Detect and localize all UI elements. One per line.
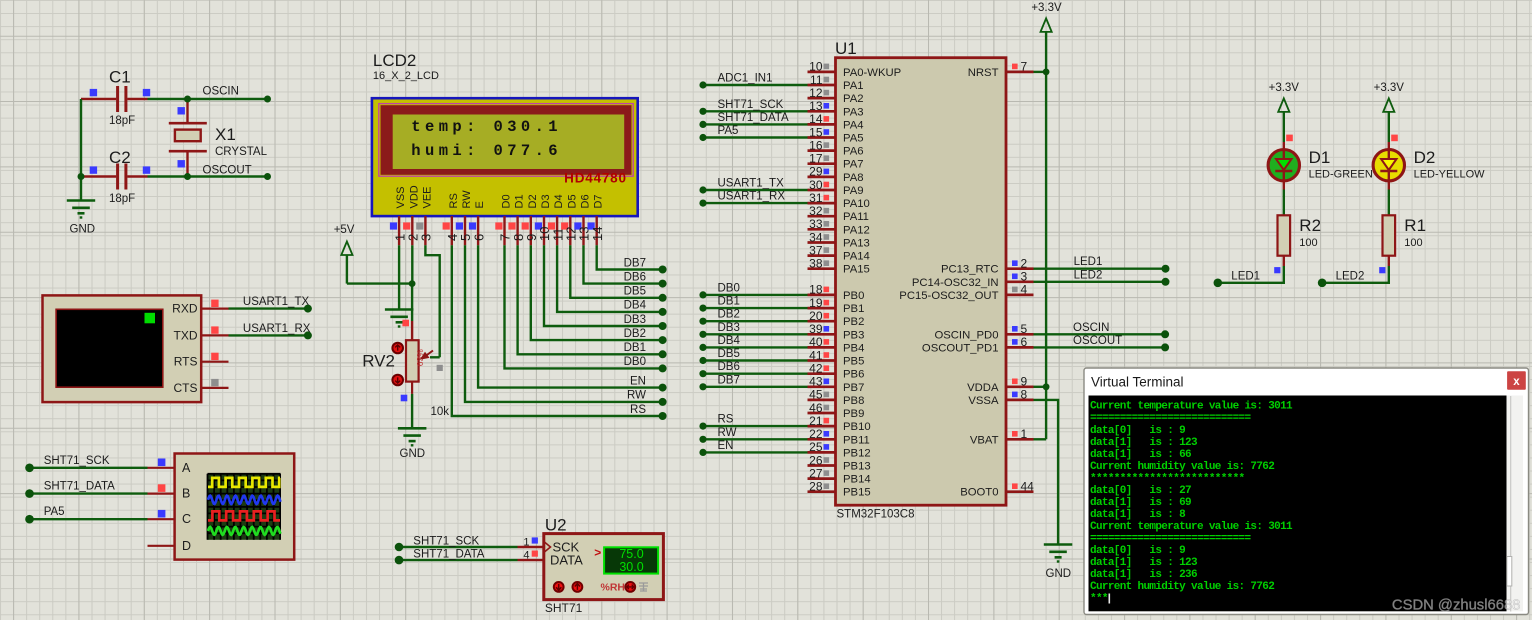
svg-text:D6: D6 xyxy=(580,194,592,208)
svg-text:OSCIN_PD0: OSCIN_PD0 xyxy=(934,329,998,341)
svg-text:data[0] is : 9: data[0] is : 9 xyxy=(1090,425,1185,437)
svg-text:DB7: DB7 xyxy=(624,257,646,269)
svg-text:RTS: RTS xyxy=(174,355,198,369)
wire EN (LCD side) xyxy=(478,245,666,391)
svg-text:RS: RS xyxy=(630,404,646,416)
svg-text:PC14-OSC32_IN: PC14-OSC32_IN xyxy=(912,277,999,289)
svg-text:LED1: LED1 xyxy=(1231,271,1260,283)
U1 pin 12 (PA2) xyxy=(808,86,864,105)
svg-text:PB12: PB12 xyxy=(843,447,871,459)
svg-text:RXD: RXD xyxy=(172,302,198,316)
svg-text:41: 41 xyxy=(809,348,823,362)
U1 pin 38 (PA15) xyxy=(808,257,870,276)
U1 pin 32 (PA11) xyxy=(808,204,869,223)
U1 pin 25 (PB12) xyxy=(808,440,871,459)
wire LCD VSS to ground xyxy=(398,245,400,308)
ground (LCD VSS) xyxy=(385,310,414,327)
svg-text:PB15: PB15 xyxy=(843,487,871,499)
svg-text:30.0: 30.0 xyxy=(619,560,643,574)
wire D1 cathode to R2 xyxy=(1283,190,1285,216)
svg-text:PB3: PB3 xyxy=(843,329,864,341)
U1 pin 2 (PC13_RTC) xyxy=(941,257,1034,276)
crystal X1 xyxy=(169,99,268,177)
U1 pin 33 (PA12) xyxy=(808,217,870,236)
svg-text:14: 14 xyxy=(809,112,823,126)
svg-text:PB13: PB13 xyxy=(843,461,871,473)
svg-text:16: 16 xyxy=(809,138,823,152)
wire SHT71_DATA (scope B) xyxy=(25,481,147,498)
svg-text:32: 32 xyxy=(809,204,823,218)
U1 pin 14 (PA4) xyxy=(808,112,864,131)
LCD2 pin 9 (D2) xyxy=(522,194,539,245)
svg-text:40: 40 xyxy=(809,335,823,349)
svg-text:SHT71_DATA: SHT71_DATA xyxy=(413,548,484,560)
svg-text:PA12: PA12 xyxy=(843,224,870,236)
svg-text:34: 34 xyxy=(809,230,823,244)
svg-text:data[0] is : 27: data[0] is : 27 xyxy=(1090,485,1191,497)
wire USART1_TX (terminal RXD) xyxy=(229,296,312,313)
ground (crystal section) xyxy=(67,201,95,236)
svg-text:7: 7 xyxy=(1021,60,1028,74)
svg-text:USART1_RX: USART1_RX xyxy=(718,191,786,203)
wire RW (U1 side) xyxy=(699,427,807,443)
svg-text:PA6: PA6 xyxy=(843,146,864,158)
wire DB5 (U1 side) xyxy=(699,348,807,364)
svg-text:DB3: DB3 xyxy=(624,314,646,326)
svg-text:DB7: DB7 xyxy=(718,374,740,386)
svg-text:SHT71: SHT71 xyxy=(545,601,583,615)
svg-text:PB4: PB4 xyxy=(843,342,864,354)
svg-text:PB0: PB0 xyxy=(843,290,864,302)
svg-text:29: 29 xyxy=(809,165,823,179)
U1 pin 42 (PB6) xyxy=(808,362,865,381)
svg-text:RW: RW xyxy=(718,427,737,439)
wire DB2 (U1 side) xyxy=(699,309,807,325)
svg-text:VDD: VDD xyxy=(408,185,420,208)
svg-text:D2: D2 xyxy=(1414,148,1436,167)
U1 pin 31 (PA10) xyxy=(808,191,870,210)
wire PA5 (U1 side) xyxy=(699,125,807,141)
U1 pin 11 (PA1) xyxy=(808,73,864,92)
svg-text:USART1_TX: USART1_TX xyxy=(243,296,310,308)
svg-text:U1: U1 xyxy=(835,39,857,58)
capacitor C2 xyxy=(81,148,150,205)
LCD2 pin 6 (E) xyxy=(469,201,486,245)
U1 pin 43 (PB7) xyxy=(808,375,865,394)
LED D1 LED-GREEN xyxy=(1268,135,1373,181)
svg-text:18: 18 xyxy=(809,283,823,297)
svg-text:RV2: RV2 xyxy=(362,351,395,370)
svg-text:D2: D2 xyxy=(527,194,539,208)
svg-text:4: 4 xyxy=(1021,283,1028,297)
wire USART1_RX (terminal TXD) xyxy=(229,323,312,340)
svg-text:PA5: PA5 xyxy=(718,125,739,137)
svg-text:LED-GREEN: LED-GREEN xyxy=(1309,169,1373,181)
svg-text:18pF: 18pF xyxy=(109,115,135,127)
svg-text:21: 21 xyxy=(809,414,823,428)
svg-text:PB10: PB10 xyxy=(843,421,871,433)
oscilloscope pin B xyxy=(148,484,175,493)
svg-text:D3: D3 xyxy=(540,194,552,208)
svg-text:RW: RW xyxy=(461,190,473,209)
svg-text:VSS: VSS xyxy=(395,186,407,208)
wire OSCIN net (OSCIN_PD0) xyxy=(1034,322,1170,339)
Virtual Terminal close button xyxy=(1507,371,1526,390)
svg-text:CTS: CTS xyxy=(174,381,198,395)
LCD2 pin 5 (RW) xyxy=(456,190,473,246)
svg-text:%RH: %RH xyxy=(601,581,626,593)
svg-text:DB0: DB0 xyxy=(718,282,740,294)
wire DB3 (LCD side) xyxy=(544,245,667,330)
svg-text:28: 28 xyxy=(809,480,823,494)
svg-text:18pF: 18pF xyxy=(109,193,135,205)
virtual terminal pin RTS xyxy=(201,353,228,362)
svg-text:PC15-OSC32_OUT: PC15-OSC32_OUT xyxy=(899,290,998,302)
ground (RV2) xyxy=(398,428,427,460)
svg-text:38: 38 xyxy=(809,257,823,271)
ground (U1 VSSA) xyxy=(1044,545,1073,581)
svg-text:6: 6 xyxy=(471,234,486,241)
power +3.3V (U1 rail) xyxy=(1031,2,1062,32)
U1 pin 29 (PA8) xyxy=(808,165,864,184)
svg-text:A: A xyxy=(182,461,191,475)
power +5V xyxy=(334,224,355,284)
U1 pin 16 (PA6) xyxy=(808,138,864,157)
wire D2 cathode to R1 xyxy=(1388,190,1390,216)
svg-text:GND: GND xyxy=(400,448,426,460)
svg-text:D5: D5 xyxy=(566,194,578,208)
svg-text:DB4: DB4 xyxy=(624,300,647,312)
LCD2 pin 4 (RS) xyxy=(443,193,460,245)
svg-text:SHT71_SCK: SHT71_SCK xyxy=(413,535,479,547)
svg-text:Current temperature value is:: Current temperature value is: 3011 xyxy=(1090,521,1293,533)
svg-text:**************************: ************************** xyxy=(1090,473,1245,485)
U1 pin 15 (PA5) xyxy=(808,125,864,144)
svg-text:PB7: PB7 xyxy=(843,382,864,394)
svg-text:Virtual Terminal: Virtual Terminal xyxy=(1091,375,1184,390)
U1 pin 7 (NRST) xyxy=(968,60,1034,79)
power +3.3V (D1) xyxy=(1269,82,1300,135)
U2 pin 1 (SCK) xyxy=(518,536,544,548)
wire OSCIN net (C1 to crystal top) xyxy=(148,86,272,103)
svg-text:PB8: PB8 xyxy=(843,395,864,407)
U1 pin 44 (BOOT0) xyxy=(960,480,1034,499)
svg-text:LED1: LED1 xyxy=(1074,256,1103,268)
wire DB4 (U1 side) xyxy=(699,335,807,351)
virtual terminal pin RXD xyxy=(201,300,228,309)
svg-text:PA5: PA5 xyxy=(843,133,864,145)
svg-text:PA5: PA5 xyxy=(44,506,65,518)
LCD2 pin 10 (D3) xyxy=(535,194,552,245)
svg-text:Current humidity value is: 776: Current humidity value is: 7762 xyxy=(1090,461,1274,473)
U1 pin 40 (PB4) xyxy=(808,335,865,354)
svg-text:46: 46 xyxy=(809,401,823,415)
svg-text:DB4: DB4 xyxy=(718,335,741,347)
svg-text:GND: GND xyxy=(1046,568,1072,580)
LCD2 pin 3 (VEE) xyxy=(416,186,433,245)
resistor R2 100 xyxy=(1278,215,1322,266)
svg-text:PB2: PB2 xyxy=(843,316,864,328)
svg-text:PA2: PA2 xyxy=(843,93,864,105)
svg-text:B: B xyxy=(182,487,190,501)
U1 pin 8 (VSSA) xyxy=(968,388,1033,407)
svg-text:30: 30 xyxy=(809,178,823,192)
svg-text:Current temperature value is:: Current temperature value is: 3011 xyxy=(1090,401,1293,413)
svg-text:HD44780: HD44780 xyxy=(564,171,627,186)
wire USART1_TX (U1 side) xyxy=(699,178,807,194)
svg-text:44: 44 xyxy=(1021,480,1035,494)
svg-text:DATA: DATA xyxy=(550,553,583,568)
U1 pin 41 (PB5) xyxy=(808,348,865,367)
svg-text:OSCOUT_PD1: OSCOUT_PD1 xyxy=(922,342,999,354)
oscilloscope trace channel A (yellow) xyxy=(208,478,280,487)
svg-text:10: 10 xyxy=(809,60,823,74)
svg-text:data[1] is : 236: data[1] is : 236 xyxy=(1090,569,1197,581)
wire SHT71_SCK (scope A) xyxy=(25,455,147,472)
potentiometer RV2 10k xyxy=(362,320,449,418)
svg-text:10k: 10k xyxy=(431,406,450,418)
U1 pin 45 (PB8) xyxy=(808,388,865,407)
svg-text:data[1] is : 69: data[1] is : 69 xyxy=(1090,497,1191,509)
svg-text:3: 3 xyxy=(1021,270,1028,284)
wire LED2 net to R1 bottom xyxy=(1318,266,1389,287)
svg-text:PA15: PA15 xyxy=(843,264,870,276)
svg-text:D1: D1 xyxy=(514,194,526,208)
svg-text:ADC1_IN1: ADC1_IN1 xyxy=(718,73,773,85)
svg-text:===========================: =========================== xyxy=(1090,413,1251,425)
svg-text:PA11: PA11 xyxy=(843,211,869,223)
svg-text:15: 15 xyxy=(809,125,823,139)
U1 pin 17 (PA7) xyxy=(808,152,864,171)
svg-text:PA8: PA8 xyxy=(843,172,864,184)
svg-text:PB1: PB1 xyxy=(843,303,864,315)
svg-text:LCD2: LCD2 xyxy=(373,51,416,70)
oscilloscope trace channel B (blue) xyxy=(208,496,281,504)
U1 pin 27 (PB14) xyxy=(808,466,871,485)
svg-text:6: 6 xyxy=(1021,335,1028,349)
svg-text:OSCOUT: OSCOUT xyxy=(1073,335,1122,347)
svg-text:OSCIN: OSCIN xyxy=(203,86,239,98)
U1 pin 46 (PB9) xyxy=(808,401,865,420)
svg-text:PA7: PA7 xyxy=(843,159,864,171)
LED D2 LED-YELLOW xyxy=(1373,135,1485,181)
Virtual Terminal window xyxy=(1084,368,1529,615)
oscilloscope trace channel C (red) xyxy=(208,511,280,520)
svg-text:1: 1 xyxy=(523,536,529,548)
svg-text:43: 43 xyxy=(809,375,823,389)
svg-text:>: > xyxy=(594,546,601,560)
svg-text:SHT71_DATA: SHT71_DATA xyxy=(718,112,789,124)
wire SHT71_DATA (U2 side) xyxy=(395,548,518,564)
svg-text:PB9: PB9 xyxy=(843,408,864,420)
svg-text:data[1] is : 123: data[1] is : 123 xyxy=(1090,557,1198,569)
svg-text:D: D xyxy=(182,539,191,553)
power +3.3V (D2) xyxy=(1374,82,1405,135)
wire DB1 (LCD side) xyxy=(518,245,667,358)
svg-text:+3.3V: +3.3V xyxy=(1269,82,1300,94)
wire +5V to LCD VDD / RV2 top xyxy=(347,245,416,321)
LCD2 pin 2 (VDD) xyxy=(403,185,420,245)
wire USART1_RX (U1 side) xyxy=(699,191,807,207)
svg-text:DB2: DB2 xyxy=(718,309,740,321)
svg-text:humi: 077.6: humi: 077.6 xyxy=(411,142,562,160)
wire LED1 net (PC13_RTC) xyxy=(1034,256,1170,273)
wire OSCOUT net (C2 to crystal bottom) xyxy=(148,165,272,181)
svg-text:26: 26 xyxy=(809,453,823,467)
svg-text:RS: RS xyxy=(448,193,460,208)
svg-text:LED-YELLOW: LED-YELLOW xyxy=(1414,169,1486,181)
oscilloscope trace channel D (green) xyxy=(208,527,281,535)
svg-text:DB6: DB6 xyxy=(624,271,646,283)
wire DB1 (U1 side) xyxy=(699,296,807,312)
svg-text:C2: C2 xyxy=(109,148,131,167)
svg-text:PA13: PA13 xyxy=(843,238,870,250)
svg-text:PB5: PB5 xyxy=(843,356,864,368)
svg-text:9: 9 xyxy=(1021,375,1028,389)
U1 pin 6 (OSCOUT_PD1) xyxy=(922,335,1034,354)
svg-text:temp: 030.1: temp: 030.1 xyxy=(411,118,562,136)
wire VSSA to ground xyxy=(1034,400,1059,544)
svg-text:19: 19 xyxy=(809,296,823,310)
U1 pin 26 (PB13) xyxy=(808,453,871,472)
svg-text:GND: GND xyxy=(70,224,96,236)
U1 pin 13 (PA3) xyxy=(808,99,864,118)
svg-text:3: 3 xyxy=(419,234,434,241)
svg-text:5: 5 xyxy=(1021,322,1028,336)
svg-text:CSDN @zhusl6688: CSDN @zhusl6688 xyxy=(1392,597,1521,613)
svg-text:OSCOUT: OSCOUT xyxy=(203,165,252,177)
svg-text:DB5: DB5 xyxy=(718,348,740,360)
LCD display LCD2 (16_X_2_LCD) xyxy=(372,51,638,216)
svg-text:data[1] is : 66: data[1] is : 66 xyxy=(1090,449,1191,461)
svg-text:11: 11 xyxy=(810,73,823,87)
svg-text:PA10: PA10 xyxy=(843,198,870,210)
resistor R1 100 xyxy=(1383,215,1427,266)
wire DB5 (LCD side) xyxy=(570,245,666,301)
wire LCD VEE to RV2 wiper xyxy=(425,245,442,371)
svg-text:2: 2 xyxy=(1021,257,1028,271)
svg-text:D0: D0 xyxy=(501,194,513,208)
svg-text:TXD: TXD xyxy=(174,328,198,342)
wire RV2 bottom to ground xyxy=(411,394,413,428)
svg-text:LED2: LED2 xyxy=(1336,271,1365,283)
svg-text:D1: D1 xyxy=(1309,148,1331,167)
wire DB0 (LCD side) xyxy=(505,245,667,372)
svg-text:VEE: VEE xyxy=(421,186,433,208)
U1 pin 34 (PA13) xyxy=(808,230,870,249)
svg-text:33: 33 xyxy=(809,217,823,231)
svg-text:27: 27 xyxy=(809,466,823,480)
U1 pin 37 (PA14) xyxy=(808,243,870,262)
svg-text:13: 13 xyxy=(809,99,823,113)
LCD2 pin 1 (VSS) xyxy=(390,186,407,245)
svg-text:PA3: PA3 xyxy=(843,106,864,118)
svg-text:D7: D7 xyxy=(593,194,605,208)
virtual terminal instrument xyxy=(43,295,202,402)
U1 pin 5 (OSCIN_PD0) xyxy=(934,322,1033,341)
svg-text:PA0-WKUP: PA0-WKUP xyxy=(843,67,901,79)
wire RS (LCD side) xyxy=(452,245,667,420)
svg-text:SHT71_DATA: SHT71_DATA xyxy=(44,481,115,493)
U1 pin 22 (PB11) xyxy=(808,427,870,446)
wire C1/C2 left vertical to ground xyxy=(78,99,85,200)
svg-text:PA4: PA4 xyxy=(843,119,864,131)
U1 pin 19 (PB1) xyxy=(808,296,865,315)
svg-text:D4: D4 xyxy=(553,194,565,208)
LCD2 pin 13 (D6) xyxy=(574,194,591,245)
svg-text:Current humidity value is: 776: Current humidity value is: 7762 xyxy=(1090,581,1274,593)
svg-text:***: *** xyxy=(1090,593,1108,605)
svg-text:+5V: +5V xyxy=(334,224,355,236)
LCD2 pin 7 (D0) xyxy=(495,194,512,245)
svg-text:R2: R2 xyxy=(1299,216,1321,235)
U1 pin 20 (PB2) xyxy=(808,309,865,328)
oscilloscope pin D xyxy=(148,545,175,547)
wire DB2 (LCD side) xyxy=(531,245,667,344)
svg-text:PB11: PB11 xyxy=(843,434,870,446)
LCD2 pin 14 (D7) xyxy=(588,194,605,245)
svg-text:EN: EN xyxy=(718,440,734,452)
svg-text:NRST: NRST xyxy=(968,67,999,79)
wire DB7 (LCD side) xyxy=(597,245,667,273)
microcontroller U1 STM32F103C8 xyxy=(835,39,1006,521)
U1 pin 39 (PB3) xyxy=(808,322,865,341)
svg-text:8: 8 xyxy=(1021,388,1028,402)
svg-text:PB14: PB14 xyxy=(843,474,871,486)
svg-text:data[0] is : 9: data[0] is : 9 xyxy=(1090,545,1185,557)
svg-text:45: 45 xyxy=(809,388,823,402)
svg-text:STM32F103C8: STM32F103C8 xyxy=(837,509,915,521)
svg-text:E: E xyxy=(474,201,486,208)
svg-text:X1: X1 xyxy=(215,125,236,144)
U2 pin 4 (DATA) xyxy=(518,549,544,561)
U1 pin 1 (VBAT) xyxy=(970,427,1034,446)
svg-text:DB3: DB3 xyxy=(718,322,740,334)
svg-text:4: 4 xyxy=(523,549,529,561)
svg-text:PB6: PB6 xyxy=(843,369,864,381)
svg-text:SHT71_SCK: SHT71_SCK xyxy=(44,455,110,467)
svg-text:VDDA: VDDA xyxy=(967,382,999,394)
oscilloscope instrument xyxy=(175,454,295,560)
svg-text:14: 14 xyxy=(590,227,605,241)
svg-text:DB1: DB1 xyxy=(624,342,646,354)
svg-text:CRYSTAL: CRYSTAL xyxy=(215,146,268,158)
oscilloscope pin A xyxy=(148,459,175,468)
wire DB6 (LCD side) xyxy=(584,245,667,287)
svg-text:DB1: DB1 xyxy=(718,296,740,308)
U2 display readings 75.0 / 30.0 xyxy=(604,547,658,573)
svg-text:C: C xyxy=(182,512,191,526)
wire DB4 (LCD side) xyxy=(557,245,667,316)
virtual terminal pin TXD xyxy=(201,326,228,335)
svg-text:RS: RS xyxy=(718,414,734,426)
oscilloscope pin C xyxy=(148,510,175,519)
svg-text:+3.3V: +3.3V xyxy=(1031,2,1062,14)
wire SHT71_SCK (U2 side) xyxy=(395,535,518,551)
svg-text:EN: EN xyxy=(630,375,646,387)
svg-text:16_X_2_LCD: 16_X_2_LCD xyxy=(373,70,439,82)
svg-text:DB6: DB6 xyxy=(718,361,740,373)
wire PA5 (scope C) xyxy=(25,506,147,523)
wire DB6 (U1 side) xyxy=(699,361,807,377)
svg-text:1: 1 xyxy=(1021,427,1028,441)
wire EN (U1 side) xyxy=(699,440,807,456)
svg-text:42: 42 xyxy=(809,362,823,376)
U1 pin 30 (PA9) xyxy=(808,178,864,197)
wire RS (U1 side) xyxy=(699,414,807,430)
U1 pin 3 (PC14-OSC32_IN) xyxy=(912,270,1034,289)
svg-text:U2: U2 xyxy=(545,516,567,535)
